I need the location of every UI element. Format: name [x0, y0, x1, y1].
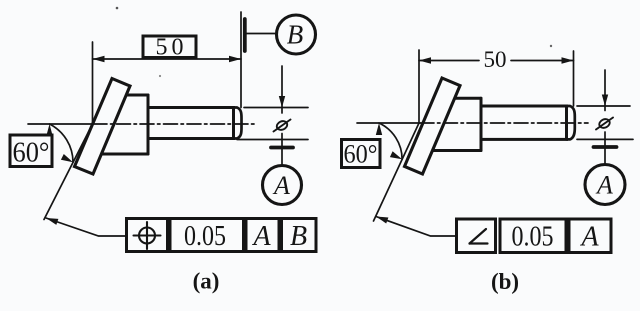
feature control frame cell: datum A, fig b: [569, 219, 611, 253]
phi symbol, fig b: [596, 118, 613, 130]
svg-text:A: A: [251, 221, 271, 252]
dimension 50 extension line right / datum B feature line, fig a: [240, 12, 242, 108]
svg-text:A: A: [579, 222, 599, 253]
scan speck: [116, 7, 119, 10]
datum A stem, fig b: [604, 132, 606, 165]
feature control frame cell: 0.05, fig a: [170, 219, 244, 253]
feature control frame cell: 0.05, fig b: [500, 219, 566, 253]
inclined disk (60° plate), fig b: [405, 78, 461, 174]
svg-text:50: 50: [484, 47, 507, 72]
phi dimension arrow, fig b: [604, 70, 606, 111]
phi dimension arrow, fig a: [281, 66, 283, 113]
datum A bar, fig b: [594, 145, 617, 149]
phi dimension extension lines, fig b: [577, 105, 630, 107]
svg-text:B: B: [287, 20, 304, 50]
centre axis line, fig a: [28, 123, 93, 125]
60 degree label box, fig b: [342, 140, 381, 169]
datum B leader, fig a: [246, 33, 277, 35]
feature control frame cell: position symbol, fig a: [127, 219, 168, 252]
svg-text:A: A: [272, 171, 290, 200]
svg-text:60°: 60°: [13, 138, 50, 169]
dimension 50 extension line left, fig b: [418, 50, 420, 123]
angle dimension arc 60°, fig a: [50, 124, 74, 162]
svg-text:(b): (b): [491, 269, 519, 294]
leader to feature control frame, fig b: [376, 217, 457, 237]
block (large cylinder) visible edges, fig a: [90, 95, 148, 154]
svg-text:B: B: [290, 221, 307, 252]
dimension line 50, fig a: [93, 58, 242, 60]
svg-text:0.05: 0.05: [512, 222, 554, 253]
leader to feature control frame, fig a: [46, 218, 127, 236]
scan speck: [159, 75, 161, 77]
datum A balloon, fig b: [585, 165, 625, 205]
phi dimension extension lines, fig a: [244, 107, 308, 109]
small cylinder, fig a: [148, 108, 234, 139]
phi symbol, fig a: [274, 120, 291, 132]
basic dimension box 50, fig a: [143, 35, 196, 61]
dimension 50 extension line right, fig b: [573, 51, 575, 106]
small cylinder, fig b: [481, 106, 567, 139]
dimension line 50, fig b: [419, 60, 479, 62]
scan speck: [550, 45, 552, 47]
svg-text:(a): (a): [193, 269, 220, 294]
inclined surface extension line, fig a: [44, 124, 93, 220]
60 degree label box, fig a: [10, 135, 52, 169]
shaft end cap, fig b: [567, 106, 575, 139]
inclined disk (60° plate), fig a: [75, 79, 131, 175]
dimension 50 extension line left, fig a: [92, 42, 94, 124]
datum B balloon, fig a: [277, 15, 316, 54]
datum A stem, fig a: [281, 134, 283, 167]
datum A balloon, fig a: [263, 166, 302, 205]
feature control frame cell: datum B, fig a: [282, 219, 317, 253]
block (large cylinder) visible edges, fig b: [420, 98, 481, 150]
svg-text:A: A: [595, 171, 613, 200]
centre axis line, fig b: [357, 122, 420, 124]
inclined surface extension line, fig b: [374, 123, 420, 221]
datum A bar, fig a: [271, 146, 293, 150]
angle dimension arc 60°, fig b: [379, 123, 402, 159]
datum B target bar, fig a: [243, 19, 247, 51]
svg-text:60°: 60°: [344, 140, 378, 169]
feature control frame cell: datum A, fig a: [246, 219, 279, 253]
svg-text:0.05: 0.05: [184, 221, 226, 252]
feature control frame cell: angularity symbol, fig b: [457, 219, 496, 253]
shaft end cap, fig a: [234, 108, 242, 139]
